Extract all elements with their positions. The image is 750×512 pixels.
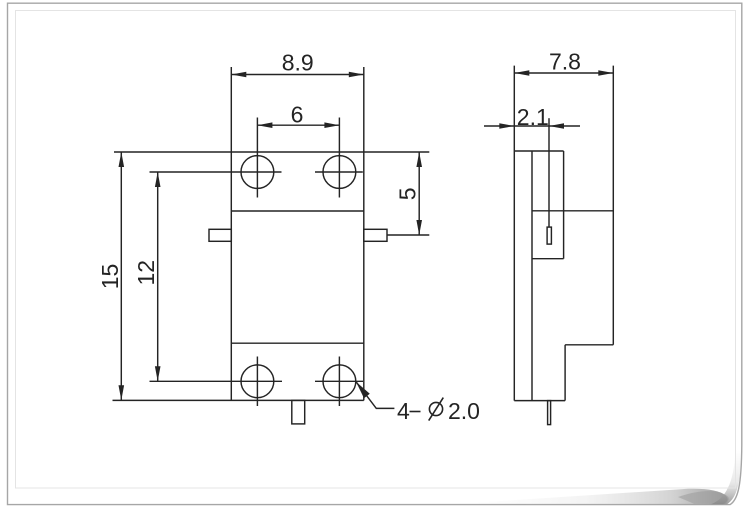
svg-text:2.1: 2.1 — [517, 104, 549, 130]
svg-text:4: 4 — [397, 398, 410, 424]
svg-text:5: 5 — [395, 188, 421, 201]
svg-text:12: 12 — [133, 260, 159, 286]
svg-text:6: 6 — [291, 101, 304, 127]
svg-text:15: 15 — [97, 264, 123, 290]
svg-text:8.9: 8.9 — [282, 50, 314, 76]
svg-text:7.8: 7.8 — [549, 48, 581, 74]
svg-text:2.0: 2.0 — [448, 398, 480, 424]
